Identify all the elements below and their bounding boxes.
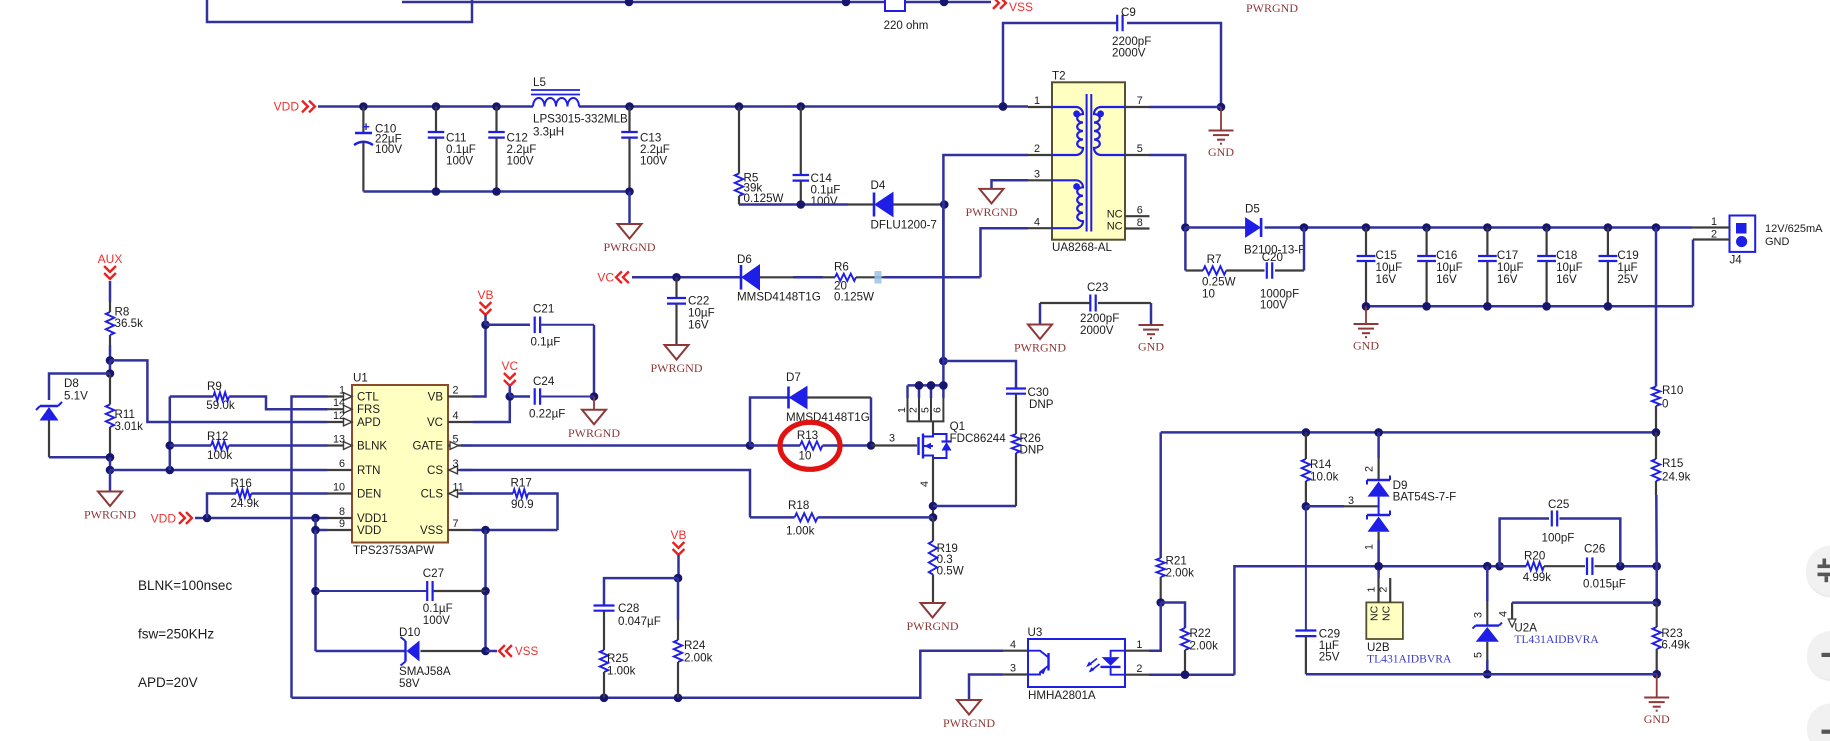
svg-text:J4: J4 xyxy=(1730,254,1743,267)
junction xyxy=(1495,562,1504,571)
svg-text:TPS23753APW: TPS23753APW xyxy=(353,544,434,557)
svg-text:R24: R24 xyxy=(684,639,706,652)
capacitor C15 xyxy=(1365,228,1367,257)
junction xyxy=(106,356,115,365)
junction xyxy=(590,392,599,401)
svg-text:16V: 16V xyxy=(688,319,709,332)
svg-text:CTL: CTL xyxy=(357,392,379,404)
ui zoom buttons xyxy=(1806,548,1830,598)
wire to pwrgnd xyxy=(628,192,631,225)
wire VDD rail xyxy=(318,105,533,108)
pin 5 U1 GATE xyxy=(448,444,473,446)
svg-text:4: 4 xyxy=(1498,611,1510,617)
IC U2B TL431 spare xyxy=(1366,602,1403,639)
junction xyxy=(1156,598,1165,607)
pin 4 U3 xyxy=(1004,650,1028,652)
pin 8 U1 VDD1 xyxy=(328,517,353,519)
svg-text:10: 10 xyxy=(1202,288,1215,301)
ground PWRGND C22 xyxy=(665,345,689,360)
capacitor C23 xyxy=(1040,302,1091,304)
resistor R24 xyxy=(677,578,680,620)
junction xyxy=(625,0,634,6)
junction xyxy=(1483,562,1492,571)
junction xyxy=(481,526,490,535)
junction xyxy=(1652,223,1661,232)
svg-text:R6: R6 xyxy=(834,261,849,274)
capacitor C12 xyxy=(495,107,497,133)
svg-text:100V: 100V xyxy=(375,143,402,156)
junction xyxy=(735,102,744,111)
pin 2 J4 xyxy=(1693,238,1730,240)
pin 6 T2 NC xyxy=(1125,215,1150,217)
wire top net xyxy=(402,1,991,4)
pin 1 U1 CTL xyxy=(328,395,353,397)
junction xyxy=(1300,223,1309,232)
svg-text:25V: 25V xyxy=(1319,651,1340,664)
wire R11 to RTN xyxy=(109,457,112,470)
wire U3 pin2 row xyxy=(1149,673,1234,676)
junction xyxy=(625,102,634,111)
svg-text:VDD: VDD xyxy=(151,512,177,526)
connector jumper pins 1 2 5 6 xyxy=(908,384,944,387)
svg-text:D6: D6 xyxy=(737,253,752,266)
wire mid rail right xyxy=(1500,565,1527,568)
svg-text:4: 4 xyxy=(1034,217,1040,229)
svg-text:220 ohm: 220 ohm xyxy=(884,20,929,32)
capacitor C20 xyxy=(1266,262,1268,279)
svg-text:LPS3015-332MLB: LPS3015-332MLB xyxy=(533,113,628,126)
capacitor C10 xyxy=(362,107,364,133)
svg-text:R15: R15 xyxy=(1662,457,1683,470)
diode D4 xyxy=(873,193,876,217)
svg-text:1: 1 xyxy=(1034,95,1040,107)
svg-text:U1: U1 xyxy=(353,372,368,385)
wire D10 row left xyxy=(316,650,406,653)
pin 7 U1 VSS xyxy=(448,529,473,531)
svg-text:3: 3 xyxy=(889,433,895,445)
svg-text:C24: C24 xyxy=(533,375,555,388)
svg-text:UA8268-AL: UA8268-AL xyxy=(1052,241,1112,254)
wire node A to APD xyxy=(110,360,328,422)
svg-text:5: 5 xyxy=(1473,652,1485,658)
svg-text:24.9k: 24.9k xyxy=(231,497,260,510)
wire drain node xyxy=(942,205,945,362)
svg-text:59.0k: 59.0k xyxy=(206,399,235,412)
svg-text:16V: 16V xyxy=(1556,273,1577,286)
svg-text:PWRGND: PWRGND xyxy=(568,426,620,440)
net flag VSS top xyxy=(993,0,999,9)
capacitor C25 loop xyxy=(1500,519,1549,567)
svg-text:HMHA2801A: HMHA2801A xyxy=(1028,689,1096,702)
svg-text:VSS: VSS xyxy=(515,645,538,658)
wire C29 column xyxy=(1305,506,1307,630)
ground PWRGND C21 C24 xyxy=(593,397,595,410)
wire R8 R11 link xyxy=(109,360,112,373)
wire VB pin to flag xyxy=(473,325,486,397)
diode D8 zener xyxy=(40,405,58,407)
wire T2 pin3 xyxy=(992,180,1029,189)
svg-text:FRS: FRS xyxy=(357,404,380,416)
junction xyxy=(1374,428,1383,437)
svg-text:6: 6 xyxy=(932,407,944,413)
svg-text:90.9: 90.9 xyxy=(511,498,534,511)
wire T2 pin7 to GND xyxy=(1149,106,1221,109)
junction xyxy=(311,514,320,523)
junction xyxy=(492,102,501,111)
junction xyxy=(746,441,755,450)
capacitor C16 xyxy=(1425,228,1427,257)
svg-text:2: 2 xyxy=(1034,143,1040,155)
wire VSS vertical xyxy=(484,530,487,651)
capacitor C19 xyxy=(1607,228,1609,257)
svg-text:PWRGND: PWRGND xyxy=(965,205,1017,219)
svg-text:14: 14 xyxy=(333,397,345,409)
svg-text:PWRGND: PWRGND xyxy=(1014,341,1066,355)
resistor R6 xyxy=(835,274,856,281)
svg-text:58V: 58V xyxy=(399,677,420,690)
junction xyxy=(1181,670,1190,679)
resistor R15 xyxy=(1655,432,1657,459)
diode D9 BAT54S xyxy=(1377,432,1380,458)
junction xyxy=(929,513,938,522)
svg-text:APD: APD xyxy=(357,417,381,429)
ground PWRGND left xyxy=(98,492,122,507)
svg-text:R7: R7 xyxy=(1207,253,1222,266)
junction xyxy=(432,102,441,111)
svg-text:1: 1 xyxy=(896,407,908,413)
ground PWRGND cap bank xyxy=(618,224,642,239)
resistor R23 xyxy=(1656,603,1658,627)
svg-text:D4: D4 xyxy=(871,179,886,192)
junction xyxy=(999,102,1008,111)
svg-text:100V: 100V xyxy=(507,155,534,168)
wire C26 to R15 xyxy=(1620,565,1656,568)
svg-text:NC: NC xyxy=(1107,209,1123,221)
wire R21 column xyxy=(1159,432,1162,558)
junction xyxy=(481,321,490,330)
svg-text:PWRGND: PWRGND xyxy=(943,716,995,730)
capacitor C13 xyxy=(628,107,630,133)
pin 2 T2 xyxy=(1028,154,1052,156)
resistor R13 xyxy=(750,444,800,447)
highlight mark xyxy=(875,271,882,284)
wire C21 row xyxy=(486,324,531,327)
svg-text:3.3µH: 3.3µH xyxy=(533,126,564,139)
diode D10 zener TVS xyxy=(404,641,406,662)
wire U3 pin3 to pwrgnd xyxy=(969,675,1004,701)
svg-text:PWRGND: PWRGND xyxy=(650,361,702,375)
svg-text:C20: C20 xyxy=(1262,251,1283,264)
junction xyxy=(1362,302,1371,311)
svg-text:10: 10 xyxy=(799,450,812,463)
svg-text:100k: 100k xyxy=(207,449,232,462)
resistor R26 xyxy=(1012,434,1020,453)
capacitor C28 xyxy=(594,604,615,606)
svg-text:1.00k: 1.00k xyxy=(786,525,815,538)
pin 4 T2 xyxy=(1028,227,1052,229)
resistor R16 xyxy=(236,489,251,497)
opto LED xyxy=(1111,651,1125,657)
capacitor C9 xyxy=(1116,15,1118,32)
svg-text:BAT54S-7-F: BAT54S-7-F xyxy=(1393,491,1457,504)
svg-text:24.9k: 24.9k xyxy=(1662,471,1691,484)
junction xyxy=(1422,223,1431,232)
svg-text:D7: D7 xyxy=(786,371,801,384)
svg-text:7: 7 xyxy=(1137,95,1143,107)
svg-text:PWRGND: PWRGND xyxy=(1246,1,1298,15)
junction xyxy=(867,441,876,450)
junction xyxy=(939,357,948,366)
svg-text:3: 3 xyxy=(1473,612,1485,618)
junction xyxy=(929,502,938,511)
capacitor C14 xyxy=(800,107,802,176)
junction xyxy=(940,200,949,209)
junction xyxy=(940,0,949,6)
svg-text:D5: D5 xyxy=(1245,203,1260,216)
capacitor C21 xyxy=(534,317,536,334)
svg-text:100V: 100V xyxy=(640,155,667,168)
junction xyxy=(1181,223,1190,232)
pin 12 U1 APD xyxy=(328,421,353,423)
svg-text:+: + xyxy=(362,119,370,134)
svg-text:1: 1 xyxy=(1711,216,1717,228)
svg-text:5.1V: 5.1V xyxy=(64,390,88,403)
pin 6 U1 RTN xyxy=(328,469,353,471)
IC U2A TL431 xyxy=(1486,566,1489,601)
svg-text:16V: 16V xyxy=(1497,273,1518,286)
ground PWRGND U3 xyxy=(957,700,981,715)
junction xyxy=(311,526,320,535)
svg-text:VSS: VSS xyxy=(1009,0,1033,14)
svg-text:DFLU1200-7: DFLU1200-7 xyxy=(871,219,937,232)
junction xyxy=(1483,223,1492,232)
junction xyxy=(1302,428,1311,437)
wire bottom rail xyxy=(292,651,1004,698)
wire VB to node xyxy=(677,555,680,578)
svg-text:12V/625mA: 12V/625mA xyxy=(1765,223,1823,235)
pin 4 U1 VC xyxy=(448,421,473,423)
svg-text:VDD: VDD xyxy=(274,100,300,114)
wire header to drain xyxy=(932,421,934,433)
capacitor C27 xyxy=(316,590,429,592)
wire C23 right xyxy=(1150,303,1153,325)
junction xyxy=(492,187,501,196)
junction xyxy=(106,453,115,462)
svg-text:VDD: VDD xyxy=(357,525,381,537)
junction xyxy=(506,392,515,401)
junction xyxy=(432,187,441,196)
svg-text:3: 3 xyxy=(1034,169,1040,181)
svg-text:VC: VC xyxy=(501,359,518,373)
connector J4 xyxy=(1730,216,1756,252)
junction xyxy=(166,441,175,450)
svg-text:GATE: GATE xyxy=(413,441,444,453)
resistor R22 xyxy=(1181,628,1189,650)
svg-text:10: 10 xyxy=(333,481,345,493)
wire R9 R12 vertical xyxy=(169,397,172,471)
svg-text:DNP: DNP xyxy=(1029,398,1054,411)
wire VC pin xyxy=(473,397,510,423)
wire drain to header xyxy=(942,361,945,385)
junction xyxy=(106,466,115,475)
svg-text:PWRGND: PWRGND xyxy=(84,508,136,522)
svg-text:1: 1 xyxy=(1136,639,1142,651)
junction xyxy=(1616,562,1625,571)
capacitor C30 xyxy=(1006,387,1026,389)
junction xyxy=(1542,223,1551,232)
wire D8 top xyxy=(49,374,110,401)
wire feedback rail xyxy=(1161,431,1656,434)
diode D7 xyxy=(787,387,790,409)
wire T2 pin2 xyxy=(943,155,1028,361)
wire C30 branch xyxy=(943,361,1016,389)
svg-text:5: 5 xyxy=(453,433,459,445)
svg-text:3: 3 xyxy=(1010,663,1016,675)
wire VC row xyxy=(632,276,741,279)
junction xyxy=(1652,670,1661,679)
resistor 220 ohm xyxy=(885,0,905,11)
wire VDD to DEN xyxy=(207,494,236,519)
svg-text:C28: C28 xyxy=(618,602,639,615)
svg-text:DNP: DNP xyxy=(1020,444,1045,457)
svg-text:4: 4 xyxy=(453,410,459,422)
svg-text:8: 8 xyxy=(339,506,345,518)
svg-text:10.0k: 10.0k xyxy=(1310,471,1339,484)
svg-text:C27: C27 xyxy=(423,567,444,580)
resistor R10 xyxy=(1655,228,1658,387)
IC U1 TPS23753APW xyxy=(352,385,448,543)
junction xyxy=(1302,502,1311,511)
svg-text:C26: C26 xyxy=(1584,543,1605,556)
svg-text:R18: R18 xyxy=(788,499,809,512)
wire D7 loop xyxy=(750,398,788,446)
svg-text:12: 12 xyxy=(333,410,345,422)
svg-text:25V: 25V xyxy=(1617,273,1638,286)
svg-text:VC: VC xyxy=(597,270,614,284)
capacitor C18 xyxy=(1545,228,1547,257)
svg-text:36.5k: 36.5k xyxy=(115,317,144,330)
resistor R8 xyxy=(106,312,114,335)
resistor R17 xyxy=(513,489,528,497)
resistor R12 xyxy=(170,444,211,447)
svg-text:T2: T2 xyxy=(1052,70,1066,83)
svg-text:8: 8 xyxy=(1137,217,1143,229)
resistor R19 xyxy=(932,517,934,541)
junction xyxy=(939,381,948,390)
resistor R5 xyxy=(738,107,740,174)
svg-text:2000V: 2000V xyxy=(1112,47,1146,60)
wire C21 right leg xyxy=(593,325,596,397)
wire C9 right leg xyxy=(1127,23,1221,107)
svg-text:2.00k: 2.00k xyxy=(1190,640,1219,653)
svg-text:C25: C25 xyxy=(1548,498,1569,511)
wire C24 row xyxy=(510,395,530,398)
svg-text:R22: R22 xyxy=(1190,627,1211,640)
pin 13 U1 BLNK xyxy=(328,444,353,446)
svg-text:7: 7 xyxy=(453,518,459,530)
capacitor C17 xyxy=(1486,228,1488,257)
junction xyxy=(1652,562,1661,571)
ground PWRGND T2 pin3 xyxy=(980,189,1004,204)
svg-text:AUX: AUX xyxy=(98,252,123,266)
junction xyxy=(311,587,320,596)
wire source xyxy=(932,458,934,517)
wire T2 pin4 xyxy=(981,228,1029,277)
svg-text:fsw=250KHz: fsw=250KHz xyxy=(138,627,214,642)
net flag VSS left xyxy=(486,650,498,653)
wire VDD row xyxy=(195,517,328,520)
capacitor C26 xyxy=(1586,557,1588,575)
svg-text:PWRGND: PWRGND xyxy=(603,240,655,254)
wire C9 left leg xyxy=(1003,23,1117,107)
pin 7 T2 xyxy=(1125,106,1149,108)
svg-text:FDC86244: FDC86244 xyxy=(950,432,1007,445)
junction xyxy=(1483,302,1492,311)
svg-text:BLNK: BLNK xyxy=(357,441,387,453)
junction xyxy=(1652,598,1661,607)
junction xyxy=(1362,223,1371,232)
junction xyxy=(1217,103,1226,112)
pin 1 J4 xyxy=(1692,226,1730,228)
wire gate lead xyxy=(871,444,917,446)
svg-text:4: 4 xyxy=(919,481,931,487)
wire T2 pin5 xyxy=(1149,155,1185,228)
svg-text:CS: CS xyxy=(427,465,443,477)
svg-text:R14: R14 xyxy=(1310,458,1332,471)
pin 2 U3 xyxy=(1125,674,1149,676)
wire C28 top xyxy=(604,578,678,605)
junction xyxy=(1542,302,1551,311)
svg-text:100pF: 100pF xyxy=(1542,532,1575,545)
svg-text:R25: R25 xyxy=(607,652,628,665)
junction xyxy=(674,694,683,703)
svg-text:RTN: RTN xyxy=(357,465,380,477)
transistor Q1 FDC86244 xyxy=(917,437,919,455)
wire CS row xyxy=(460,470,750,517)
svg-text:4.99k: 4.99k xyxy=(1523,571,1552,584)
wire CTL vertical xyxy=(292,397,328,698)
svg-text:R12: R12 xyxy=(207,430,228,443)
svg-text:R17: R17 xyxy=(511,477,532,490)
opto light arrows xyxy=(1088,659,1098,667)
svg-text:1: 1 xyxy=(1366,587,1378,593)
wire R5 C14 bottom row xyxy=(739,203,848,206)
svg-text:GND: GND xyxy=(1208,145,1234,159)
transformer T2 xyxy=(1052,82,1125,239)
junction xyxy=(999,102,1008,111)
svg-text:3.01k: 3.01k xyxy=(115,420,144,433)
svg-text:DEN: DEN xyxy=(357,489,381,501)
snubber R7 C20 branch wire xyxy=(1184,228,1187,271)
ground GND bottom right xyxy=(1656,674,1658,697)
inductor L5 xyxy=(533,98,579,106)
svg-text:NC: NC xyxy=(1369,605,1381,621)
wire VSS row xyxy=(473,529,558,532)
svg-text:0.047µF: 0.047µF xyxy=(618,615,661,628)
junction xyxy=(672,273,681,282)
wire R14 to D9 pin3 xyxy=(1306,505,1344,508)
junction xyxy=(359,102,368,111)
svg-text:100V: 100V xyxy=(446,155,473,168)
resistor R9 xyxy=(170,395,214,398)
pin 11 U1 CLS xyxy=(448,492,473,494)
svg-text:100V: 100V xyxy=(423,614,450,627)
svg-text:TL431AIDBVRA: TL431AIDBVRA xyxy=(1367,653,1452,666)
svg-text:2000V: 2000V xyxy=(1080,324,1114,337)
junction xyxy=(842,0,851,6)
svg-text:GND: GND xyxy=(1353,339,1379,353)
resistor R20 xyxy=(1526,562,1544,570)
